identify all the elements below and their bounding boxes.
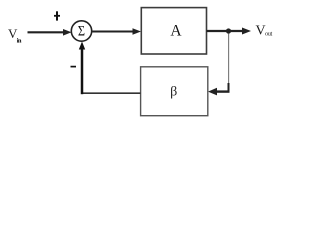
arrowhead into beta — [208, 88, 217, 96]
wire feedback up — [81, 48, 84, 95]
wire input — [28, 31, 65, 33]
svg-text:Σ: Σ — [78, 22, 85, 38]
arrowhead into summer bottom — [79, 42, 85, 50]
arrowhead into A — [133, 28, 142, 35]
arrowhead output — [242, 28, 251, 35]
wire summer to A — [92, 31, 134, 33]
wire A to output — [207, 30, 244, 32]
svg-text:β: β — [170, 85, 177, 100]
block beta — [141, 67, 208, 116]
plus sign — [54, 11, 60, 20]
wire bend into beta — [214, 83, 230, 92]
wire tap down from node — [228, 34, 230, 85]
wire beta to left — [81, 92, 141, 94]
svg-text:in: in — [17, 37, 22, 44]
arrowhead into summer — [63, 29, 72, 36]
node output junction — [226, 28, 231, 33]
block A — [141, 8, 206, 54]
minus sign — [71, 66, 77, 68]
input label Vin — [8, 26, 22, 45]
summing junction U1 — [71, 21, 91, 41]
output label Vout — [256, 24, 273, 39]
svg-text:A: A — [170, 22, 182, 39]
svg-text:out: out — [265, 31, 272, 38]
